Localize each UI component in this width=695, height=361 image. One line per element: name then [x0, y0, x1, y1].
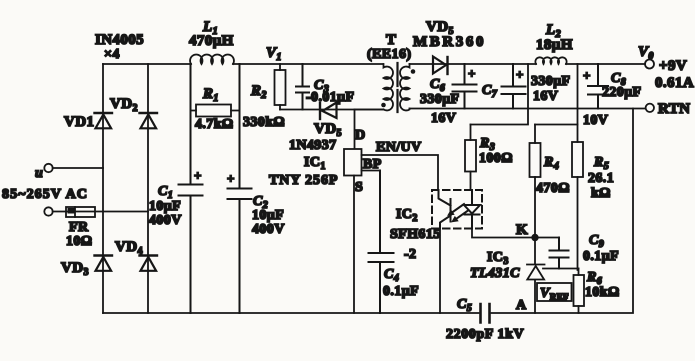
wire bridge left vertical	[102, 64, 104, 313]
resistor R1	[191, 86, 240, 132]
wire clamp to drain	[280, 109, 383, 111]
svg-text:330kΩ: 330kΩ	[243, 115, 285, 130]
svg-text:VD2: VD2	[110, 96, 138, 114]
svg-text:400V: 400V	[252, 222, 285, 237]
svg-text:470μH: 470μH	[189, 33, 234, 49]
svg-text:VD3: VD3	[61, 260, 89, 278]
svg-text:IC2: IC2	[396, 207, 418, 224]
wire Vb output tap	[577, 64, 579, 270]
inductor L2	[535, 22, 572, 64]
resistor R2	[243, 64, 286, 130]
svg-text:100Ω: 100Ω	[479, 151, 513, 166]
svg-text:C4: C4	[384, 267, 399, 284]
svg-text:R5: R5	[593, 155, 609, 172]
wire Va pre-filter tap	[471, 64, 529, 125]
wire line B	[535, 124, 578, 126]
label IN4005 x4	[95, 32, 144, 62]
svg-text:VD5: VD5	[314, 121, 342, 139]
wire bottom rail primary	[103, 312, 479, 314]
svg-text:C5: C5	[457, 297, 472, 314]
svg-text:VREF: VREF	[540, 286, 569, 302]
wire RTN rail	[410, 108, 646, 110]
svg-text:330μF: 330μF	[531, 74, 571, 89]
svg-text:C9: C9	[589, 233, 604, 250]
resistor R3	[465, 125, 513, 191]
svg-text:+: +	[227, 171, 235, 186]
svg-text:K: K	[516, 222, 528, 238]
wire primary bottom	[355, 109, 384, 111]
wire bridge right vertical	[147, 64, 149, 313]
svg-text:×4: ×4	[104, 47, 120, 62]
box VREF	[537, 283, 572, 302]
svg-text:V1: V1	[266, 45, 282, 63]
svg-text:10μF: 10μF	[149, 199, 181, 214]
svg-text:R1: R1	[202, 86, 219, 104]
capacitor C7	[482, 64, 571, 109]
svg-text:-0.01μF: -0.01μF	[306, 90, 354, 105]
wire input line 2	[53, 211, 148, 213]
wire input line 1	[53, 167, 103, 169]
IC3 TL431C	[470, 238, 545, 314]
svg-text:0.1μF: 0.1μF	[383, 284, 419, 299]
svg-text:10Ω: 10Ω	[66, 234, 92, 249]
svg-text:FR: FR	[69, 220, 89, 235]
resistor R6	[574, 269, 620, 314]
transformer T EE16	[367, 32, 415, 112]
svg-text:S: S	[355, 180, 363, 195]
svg-text:IC1: IC1	[304, 155, 326, 172]
svg-text:+: +	[583, 68, 591, 83]
terminal RTN	[646, 101, 691, 117]
diode VD4	[115, 239, 157, 271]
diode VD1	[64, 113, 112, 130]
svg-text:10μF: 10μF	[252, 208, 284, 223]
capacitor C5	[446, 297, 524, 342]
svg-text:VD4: VD4	[115, 239, 143, 257]
svg-text:0.1μF: 0.1μF	[583, 249, 619, 264]
wire bottom rail right	[492, 109, 634, 314]
capacitor C8	[583, 64, 642, 128]
svg-text:220μF: 220μF	[602, 85, 642, 100]
svg-text:0.61A: 0.61A	[655, 75, 694, 91]
svg-text:TL431C: TL431C	[470, 266, 520, 281]
svg-text:u: u	[35, 166, 43, 181]
svg-text:kΩ: kΩ	[591, 186, 611, 201]
diode VD5 MBR360	[413, 19, 486, 74]
svg-text:16V: 16V	[533, 89, 558, 104]
inductor L1	[189, 19, 234, 64]
IC1 TNY256P	[269, 128, 382, 195]
svg-text:+9V: +9V	[659, 58, 687, 74]
svg-text:RTN: RTN	[658, 101, 690, 117]
diode VD5 snubber	[289, 103, 342, 154]
svg-text:4.7kΩ: 4.7kΩ	[195, 117, 234, 132]
svg-text:R2: R2	[250, 83, 267, 101]
wire BP to C4	[362, 170, 381, 172]
svg-text:400V: 400V	[149, 213, 182, 228]
capacitor C2	[227, 64, 285, 313]
wire drain vertical	[354, 110, 356, 150]
svg-text:18μH: 18μH	[536, 37, 573, 53]
capacitor C6	[420, 64, 477, 126]
wire source S	[353, 176, 355, 314]
input terminal u	[35, 164, 53, 181]
fuse FR	[66, 207, 95, 249]
svg-text:R4: R4	[543, 155, 559, 172]
svg-text:T: T	[386, 32, 396, 48]
capacitor C4	[369, 171, 420, 314]
wire top rail primary	[103, 63, 383, 65]
svg-text:SFH615: SFH615	[390, 227, 441, 242]
svg-text:+: +	[194, 168, 202, 183]
svg-text:C7: C7	[482, 83, 498, 100]
wire REF line	[543, 268, 579, 270]
terminal V0	[638, 44, 694, 91]
svg-text:1N4937: 1N4937	[289, 138, 337, 153]
resistor R4	[530, 125, 570, 238]
svg-text:IN4005: IN4005	[95, 32, 144, 48]
svg-text:(EE16): (EE16)	[367, 47, 411, 62]
svg-text:10V: 10V	[583, 113, 608, 128]
svg-text:2200pF 1kV: 2200pF 1kV	[446, 327, 524, 342]
svg-text:-2: -2	[404, 247, 416, 262]
svg-text:16V: 16V	[431, 111, 456, 126]
wire opto LED cathode to K	[472, 229, 559, 238]
node K	[516, 222, 539, 241]
svg-text:+: +	[516, 67, 524, 82]
svg-text:330μF: 330μF	[420, 92, 460, 107]
svg-text:IC3: IC3	[487, 250, 509, 267]
capacitor C9	[550, 233, 620, 269]
svg-text:470Ω: 470Ω	[536, 181, 570, 196]
svg-text:MBR360: MBR360	[413, 34, 486, 50]
svg-text:10kΩ: 10kΩ	[585, 285, 620, 300]
diode VD3	[61, 256, 112, 279]
capacitor C1	[149, 64, 203, 313]
resistor R5	[572, 142, 614, 201]
wire top rail secondary	[410, 63, 646, 65]
svg-text:EN/UV: EN/UV	[376, 140, 422, 155]
svg-text:+: +	[468, 66, 476, 81]
svg-text:26.1: 26.1	[588, 171, 614, 186]
svg-text:TNY 256P: TNY 256P	[269, 173, 338, 188]
svg-text:A: A	[516, 298, 527, 313]
optocoupler IC2 SFH615-2	[390, 190, 482, 262]
svg-text:D: D	[355, 128, 366, 143]
capacitor C3	[296, 64, 354, 110]
input terminal 2	[44, 207, 52, 215]
svg-text:V0: V0	[638, 44, 654, 62]
diode VD2	[110, 96, 157, 128]
wire opto emitter	[439, 229, 441, 314]
svg-text:85~265V AC: 85~265V AC	[2, 187, 88, 202]
wire EN/UV	[362, 140, 439, 190]
svg-text:VD1: VD1	[64, 114, 94, 130]
